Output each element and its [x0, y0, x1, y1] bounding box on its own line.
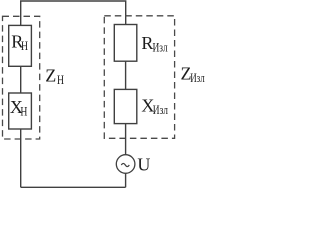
resistor R_H box: [9, 25, 32, 66]
wire below X_H down to bottom: [20, 129, 22, 187]
svg-text:Изл: Изл: [153, 103, 168, 117]
svg-text:Изл: Изл: [190, 71, 205, 85]
dashed box Z_Izl (radiator impedance): [104, 16, 174, 139]
svg-text:Н: Н: [57, 73, 64, 87]
svg-text:U: U: [137, 155, 150, 175]
wire bottom horizontal: [21, 186, 126, 188]
wire between R_H and X_H: [20, 66, 22, 93]
wire X_Izl to source: [125, 124, 127, 155]
wire between R_Izl and X_Izl: [125, 61, 127, 89]
svg-text:Изл: Изл: [153, 40, 168, 54]
AC source U circle: [116, 155, 135, 174]
wire source to bottom: [125, 173, 127, 187]
svg-text:Н: Н: [20, 105, 27, 119]
resistor R_Izl box: [114, 25, 137, 62]
dashed box Z_H (load impedance): [3, 16, 40, 139]
reactance X_H box: [9, 93, 32, 129]
AC source sine symbol: [121, 163, 129, 166]
svg-text:Н: Н: [21, 39, 28, 53]
svg-text:Z: Z: [45, 65, 56, 85]
reactance X_Izl box: [114, 89, 137, 123]
wire top horizontal: [21, 1, 126, 25]
